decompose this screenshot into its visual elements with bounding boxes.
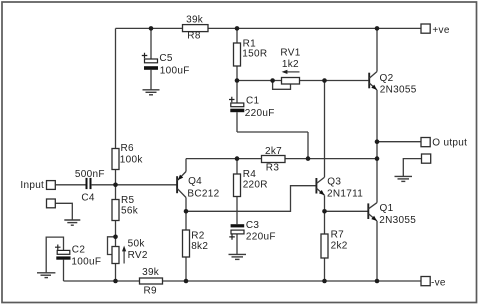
- svg-text:O utput: O utput: [432, 138, 467, 149]
- wire: Q3 emitter node to Q1 base: [325, 210, 368, 212]
- svg-text:Q1: Q1: [380, 203, 394, 214]
- node: top rail / C5 junction: [149, 26, 154, 31]
- wire: C2 bottom to rail: [63, 260, 65, 281]
- svg-text:Q4: Q4: [188, 176, 202, 187]
- wire: Q4 collector lead down: [185, 198, 187, 212]
- wire: R2 bottom to rail: [185, 257, 187, 281]
- wire: feedback rail (Q4 emitter to output column): [186, 158, 377, 160]
- node: input / R6 / R5 / Q4 base junction: [113, 183, 118, 188]
- wire: C4 to input node: [92, 184, 116, 186]
- terminal speaker ground: [422, 154, 431, 163]
- wire: C5 bottom to ground: [150, 70, 152, 90]
- svg-text:50k: 50k: [128, 239, 146, 250]
- wire: Q4 collector node to Q3 base: [186, 186, 316, 212]
- ground (input terminal): [64, 220, 80, 225]
- wire: R7 top stub: [324, 211, 326, 234]
- wire: top +ve rail: [116, 27, 422, 29]
- ground (below C5): [143, 90, 160, 95]
- wire: C1 route down to feedback node: [307, 132, 309, 159]
- svg-text:2N1711: 2N1711: [327, 189, 363, 200]
- wire: RV1 wiper loop: [273, 81, 291, 90]
- ground (below C3): [229, 254, 247, 259]
- node: Q1 emitter / bottom rail junction: [375, 279, 380, 284]
- resistor R9 39k: [140, 278, 163, 284]
- wire: R4 top stub: [236, 159, 238, 174]
- wire: left bus R5 to RV2: [115, 221, 117, 247]
- node: R4 top / feedback junction: [235, 156, 240, 161]
- svg-text:2N3055: 2N3055: [379, 215, 416, 226]
- svg-text:100k: 100k: [120, 154, 144, 165]
- svg-text:100uF: 100uF: [71, 256, 101, 267]
- svg-text:2k2: 2k2: [331, 241, 348, 252]
- svg-text:100uF: 100uF: [160, 65, 190, 76]
- capacitor C4 500nF: [86, 178, 92, 189]
- resistor R1 150R: [234, 43, 241, 66]
- wire: left bus R6 to R5: [115, 170, 117, 200]
- svg-text:BC212: BC212: [187, 188, 219, 199]
- svg-text:C1: C1: [246, 95, 260, 106]
- svg-text:R1: R1: [243, 38, 257, 49]
- wire: R1 node to RV1 left: [237, 80, 282, 82]
- node: RV2 / bottom rail junction: [113, 279, 118, 284]
- resistor R7 2k2: [321, 234, 328, 258]
- wire: R2 top stub: [185, 211, 187, 230]
- svg-text:RV2: RV2: [128, 250, 148, 261]
- wire: C3 bottom to ground: [236, 234, 238, 254]
- wire: speaker ground terminal lead: [403, 159, 421, 176]
- wire: output node to terminal: [377, 141, 421, 143]
- wire: left bus upper (top rail down to R6): [115, 28, 117, 148]
- svg-text:R6: R6: [121, 143, 135, 154]
- svg-text:C2: C2: [72, 244, 86, 255]
- wire: RV2 wiper loop: [108, 237, 116, 255]
- svg-text:R2: R2: [191, 230, 205, 241]
- svg-text:8k2: 8k2: [191, 241, 208, 252]
- wire: C1 bottom down: [236, 112, 238, 132]
- svg-text:Q3: Q3: [327, 177, 341, 188]
- svg-text:Q2: Q2: [380, 73, 394, 84]
- potentiometer RV2 arrow: [122, 246, 126, 264]
- svg-text:Input: Input: [20, 180, 44, 191]
- wire: Q3 collector lead up to Q2 base wire: [324, 81, 326, 178]
- svg-text:R8: R8: [187, 31, 201, 42]
- svg-text:220uF: 220uF: [245, 108, 275, 119]
- wire: C5 top drop from rail: [150, 28, 152, 59]
- potentiometer RV1 arrow: [282, 70, 300, 74]
- resistor R6 100k: [112, 149, 119, 170]
- wire: C1 route horizontal: [237, 131, 308, 133]
- capacitor C5 100uF: [142, 53, 158, 70]
- potentiometer RV1 1k2 body: [282, 78, 300, 85]
- svg-text:C5: C5: [159, 53, 173, 64]
- wire: Q4 emitter lead up: [185, 159, 187, 172]
- svg-text:RV1: RV1: [280, 47, 300, 58]
- wire: R1 bottom to C1 top: [236, 66, 238, 103]
- node: R7 / bottom rail junction: [322, 279, 327, 284]
- transistor Q1 2N3055: [368, 203, 377, 221]
- wire: Q2 emitter down to Q1 collector (output column): [376, 90, 378, 203]
- resistor R4 220R: [234, 174, 241, 197]
- wire: R1 top stub: [236, 28, 238, 43]
- svg-text:1k2: 1k2: [282, 59, 299, 70]
- node: RV1 wiper tie junction: [270, 78, 275, 83]
- node: Q3 collector / Q2 base wire junction: [322, 78, 327, 83]
- capacitor C3 220uF (inverted electrolytic): [229, 224, 244, 240]
- wire: bottom -ve rail: [64, 280, 422, 282]
- terminal input ground: [47, 199, 56, 208]
- svg-text:R7: R7: [331, 230, 345, 241]
- transistor Q4 BC212 (PNP): [177, 172, 186, 198]
- svg-text:+ve: +ve: [432, 25, 449, 36]
- svg-text:39k: 39k: [186, 14, 204, 25]
- node: output junction: [375, 139, 380, 144]
- node: top rail / R1 junction: [235, 26, 240, 31]
- wire: C2 top loop to ground: [46, 237, 63, 272]
- wire: left bus RV2 to bottom rail: [115, 264, 117, 282]
- wire: Q2 collector lead to top rail: [376, 28, 378, 71]
- svg-text:2N3055: 2N3055: [380, 85, 417, 96]
- wire: R4 bottom to C3: [236, 197, 238, 225]
- svg-text:220R: 220R: [243, 179, 268, 190]
- wire: R7 bottom to rail: [324, 258, 326, 281]
- terminal Input: [47, 181, 56, 190]
- terminal -ve: [421, 277, 430, 286]
- wire: Q3 emitter lead down: [324, 195, 326, 211]
- svg-text:R9: R9: [144, 286, 158, 297]
- wire: input node to Q4 base: [116, 184, 177, 186]
- resistor R3 2k7: [262, 156, 286, 163]
- wire: Q1 emitter to bottom rail: [376, 221, 378, 281]
- node: feedback / output column junction: [375, 156, 380, 161]
- resistor R8 39k: [183, 25, 209, 32]
- svg-text:2k7: 2k7: [265, 146, 282, 157]
- svg-text:220uF: 220uF: [246, 231, 276, 242]
- resistor R2 8k2: [183, 230, 190, 257]
- node: Q3 emitter / R7 / Q1 base junction: [322, 209, 327, 214]
- wire: input ground terminal lead: [55, 203, 72, 219]
- svg-text:C3: C3: [246, 220, 260, 231]
- node: Q4 collector / R2 junction: [184, 209, 189, 214]
- ground (below C2 loop): [37, 273, 55, 278]
- svg-text:150R: 150R: [242, 49, 267, 60]
- ground (speaker terminal): [395, 176, 413, 181]
- terminal Output: [421, 138, 430, 147]
- wire: RV1 right to Q2 base: [300, 80, 369, 82]
- node: R5 / RV2 junction: [113, 235, 118, 240]
- resistor R5 56k: [112, 200, 119, 221]
- node: C1 branch / feedback junction: [306, 156, 311, 161]
- svg-text:56k: 56k: [121, 205, 139, 216]
- svg-text:39k: 39k: [142, 267, 160, 278]
- svg-text:C4: C4: [81, 192, 95, 203]
- node: R1 bottom / C1 / RV1 junction: [235, 78, 240, 83]
- svg-text:R3: R3: [266, 163, 280, 174]
- svg-text:500nF: 500nF: [75, 169, 105, 180]
- terminal +ve: [421, 24, 430, 33]
- wire: input terminal to C4: [55, 184, 86, 186]
- transistor Q2 2N3055: [369, 72, 377, 90]
- svg-text:-ve: -ve: [431, 277, 446, 288]
- node: top rail / Q2 collector junction: [375, 26, 380, 31]
- node: R2 / bottom rail junction: [184, 279, 189, 284]
- transistor Q3 2N1711: [316, 177, 324, 195]
- potentiometer RV2 50k body: [112, 247, 119, 264]
- capacitor C2 100uF: [55, 245, 71, 260]
- capacitor C1 220uF: [229, 97, 244, 112]
